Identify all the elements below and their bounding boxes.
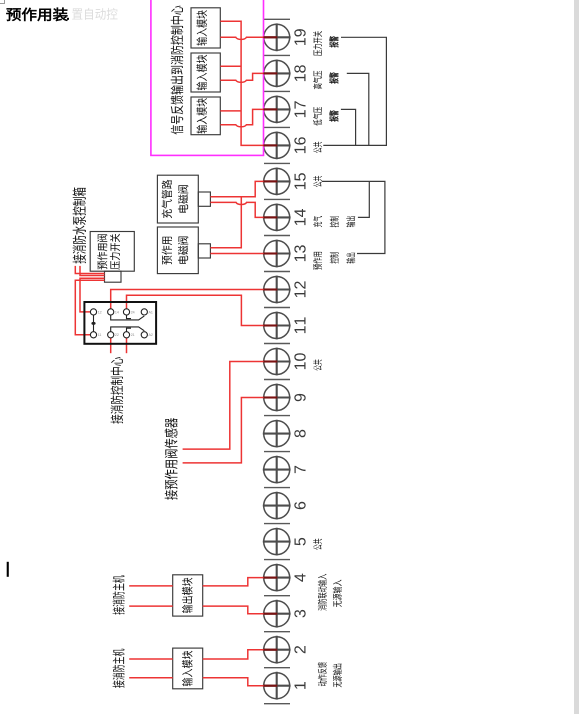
bus stub terminal 14 — [358, 181, 369, 217]
output module M4 box — [173, 575, 203, 616]
terminal 15 circle — [264, 168, 290, 194]
label t17: 报警 — [329, 110, 338, 121]
label t13: 预作用 — [313, 252, 322, 270]
label: 充气管路 — [162, 180, 172, 218]
terminal separator — [264, 54, 290, 56]
relay contact row 2 — [111, 327, 145, 332]
wire PS-1 stub up — [75, 266, 104, 274]
title: 预作用装 — [6, 8, 67, 21]
terminal 6 circle — [264, 493, 290, 519]
terminal 13 circle — [264, 241, 290, 267]
bus: terminals 13-15 control group — [322, 181, 385, 253]
terminal 19 circle — [264, 24, 290, 50]
label t17: 低气压 — [313, 107, 322, 125]
label: 接消防水泵控制箱 — [73, 187, 86, 263]
terminal separator — [264, 451, 290, 453]
label t1/t2: 动作反馈 — [318, 662, 327, 686]
wire PS-4 to relay coil bottom — [75, 280, 104, 335]
wire M4-a to terminal 4 — [203, 578, 265, 586]
svg-text:12: 12 — [98, 310, 102, 314]
solenoid valve V2 box (pre-action) — [157, 227, 198, 274]
terminal separator — [264, 595, 290, 597]
terminal 8 circle — [264, 421, 290, 447]
terminal 11 circle — [264, 313, 290, 339]
label t14: 充气 — [313, 216, 322, 227]
terminal separator — [264, 271, 290, 273]
terminal separator — [264, 162, 290, 164]
label t10: 公共 — [313, 359, 322, 370]
svg-text:22: 22 — [115, 333, 119, 337]
label: 接消防控制中心 — [111, 357, 124, 424]
svg-text:14: 14 — [115, 310, 119, 314]
terminal 2 circle — [264, 637, 290, 663]
svg-text:11: 11 — [98, 333, 102, 337]
solenoid valve V1 box (charging line) — [157, 175, 198, 223]
label t3/t4: 无源输入 — [333, 580, 342, 607]
terminal separator — [264, 559, 290, 561]
terminal separator — [264, 307, 290, 309]
wire fire-host to M4 b — [129, 605, 173, 607]
wire M5-a to terminal 2 — [203, 650, 265, 659]
terminal separator — [264, 235, 290, 237]
terminal 18 circle — [264, 60, 290, 86]
label t18: 报警 — [329, 72, 338, 83]
svg-text:21: 21 — [131, 333, 135, 337]
label: 压力开关 — [110, 234, 120, 270]
wire M1-b to terminal 19 — [220, 37, 265, 39]
label t19: 报警 — [329, 36, 338, 47]
terminal separator — [264, 379, 290, 381]
label t13: 输出 — [346, 253, 355, 264]
bus: terminals 16-19 alarm group — [323, 37, 386, 145]
terminal wire stubs — [264, 37, 278, 685]
pressure switch PS box — [90, 232, 134, 272]
label t3/t4: 消防联动输入 — [318, 574, 327, 611]
wire relay pin to control centre A — [110, 335, 112, 353]
label: 预作用 — [162, 237, 172, 265]
wire fire-host to M4 a — [129, 585, 173, 587]
terminal separator — [264, 198, 290, 200]
wire M3-a to trunk junction — [220, 110, 241, 112]
label t16: 公共 — [313, 142, 322, 153]
terminal separator — [264, 18, 290, 20]
wire V2-b to terminal 13 — [210, 253, 265, 255]
svg-text:24: 24 — [131, 310, 135, 314]
terminal 9 circle — [264, 385, 290, 411]
label: 接消防主机 (lower) — [113, 649, 125, 688]
relay K1 contacts and pins — [90, 309, 147, 338]
terminal separator — [264, 415, 290, 417]
wire V1-b to terminal 14 — [210, 202, 265, 217]
terminal separator — [264, 343, 290, 345]
label: 预作用阀 — [97, 234, 107, 269]
input module M2 box — [191, 53, 220, 92]
relay K1 box — [84, 302, 156, 344]
label: 接预作用阀传感器 — [165, 418, 178, 500]
label t19: 压力开关 — [313, 31, 322, 56]
title ghost text — [72, 8, 117, 20]
label: 输入模块 M1 — [196, 10, 207, 45]
svg-text:A1: A1 — [149, 310, 153, 314]
terminal separator — [264, 631, 290, 633]
terminal 3 circle — [264, 601, 290, 627]
input module M5 box — [173, 648, 203, 689]
label: 输入模块 M2 — [196, 55, 207, 90]
terminal separator — [264, 487, 290, 489]
label: 电磁阀 V2 — [178, 236, 188, 263]
label t14: 输出 — [346, 216, 355, 227]
label: 信号反馈输出到消防控制中心 — [171, 6, 184, 135]
label t1/t2: 无源输出 — [333, 664, 342, 688]
input module M1 box — [191, 8, 220, 48]
relay contact row 1 — [111, 315, 145, 320]
label: 输出模块 — [182, 578, 193, 613]
terminal separator — [264, 667, 290, 669]
terminal 7 circle — [264, 457, 290, 483]
wire sensor to terminal 10 — [183, 362, 265, 450]
wire M4-b to terminal 3 — [203, 606, 265, 614]
label t15: 公共 — [313, 176, 322, 187]
wire relay NO1 to terminal 12 — [111, 290, 265, 312]
terminal numbers — [294, 29, 305, 689]
wire V1-a branch to V2-a — [210, 197, 241, 248]
svg-text:A2: A2 — [149, 333, 153, 337]
wire M2-b to terminal 18 — [220, 73, 265, 82]
wire fire-host to M5 a — [129, 658, 173, 660]
label t13: 控制 — [330, 253, 339, 264]
input module M3 box — [191, 97, 220, 135]
terminal 12 circle — [264, 277, 290, 303]
terminal 1 circle — [264, 673, 290, 699]
wire sensor to terminal 9 — [183, 398, 265, 463]
terminal 17 circle — [264, 96, 290, 122]
solenoid valve V1 terminal block — [198, 192, 210, 206]
terminal 5 circle — [264, 529, 290, 555]
wire M1-a to common trunk to terminal 16 — [220, 21, 265, 145]
bus stub terminal 17 — [341, 109, 356, 145]
terminal 10 circle — [264, 349, 290, 375]
wire PS-3 to relay coil top — [80, 278, 105, 312]
terminal separator — [264, 523, 290, 525]
terminal 4 circle — [264, 565, 290, 591]
signal-feedback group frame (magenta) — [151, 0, 264, 155]
relay pin numbers — [98, 310, 153, 337]
terminal 16 circle — [264, 132, 290, 158]
wire M5-b to terminal 1 — [203, 678, 265, 686]
label t5: 公共 — [313, 539, 322, 550]
wire relay NC1 to terminal 11 — [127, 295, 266, 325]
page corner mark — [0, 0, 5, 4]
relay coil — [93, 315, 95, 332]
text cursor — [7, 562, 9, 577]
wire fire-host to M5 b — [129, 677, 173, 679]
bus stub terminal 18 — [347, 73, 369, 145]
wire V1-a to terminal 15 — [210, 181, 265, 196]
label: 电磁阀 V1 — [178, 185, 188, 212]
wire M2-a to trunk junction — [220, 65, 241, 67]
wire M3-b to terminal 17 — [220, 109, 265, 126]
label: 输入模块 M5 — [182, 651, 193, 686]
terminal separator — [264, 90, 290, 92]
terminal separator — [264, 703, 290, 705]
wire relay pin to control centre B — [126, 335, 128, 353]
label t18: 高气压 — [313, 71, 322, 89]
solenoid valve V2 terminal block — [198, 244, 210, 258]
terminal 14 circle — [264, 204, 290, 230]
window scrollbar strip — [574, 0, 579, 714]
title period — [67, 18, 69, 20]
label t14: 控制 — [330, 216, 339, 227]
label: 接消防主机 (upper) — [113, 575, 125, 614]
label: 输入模块 M3 — [196, 98, 207, 133]
pressure switch terminal block — [105, 271, 122, 282]
wire PS-2 stub up — [80, 266, 105, 276]
terminal separator — [264, 126, 290, 128]
